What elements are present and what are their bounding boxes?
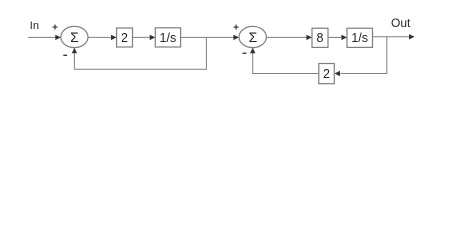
wire feedback loop 2 left segment <box>253 53 319 74</box>
arrowhead at output <box>409 34 415 39</box>
arrowhead into G2 <box>306 35 312 40</box>
arrowhead into U1 <box>55 35 61 40</box>
wire G1 to integrator I1 <box>133 36 151 38</box>
summing junction U1 <box>61 26 88 47</box>
svg-text:Σ: Σ <box>70 29 79 45</box>
svg-text:Σ: Σ <box>249 29 258 45</box>
integrator block I1 value 1/s <box>155 28 180 47</box>
minus sign at U1 feedback input <box>63 55 67 56</box>
wire U2 to gain block G2 <box>267 36 308 38</box>
arrowhead into I1 <box>150 35 156 40</box>
svg-text:Out: Out <box>391 16 411 30</box>
wire G2 to integrator I2 <box>328 36 342 38</box>
svg-text:1/s: 1/s <box>160 31 177 45</box>
svg-text:2: 2 <box>121 31 128 45</box>
plus sign at U1 input <box>53 25 58 30</box>
arrowhead up into U1 bottom <box>72 48 77 54</box>
arrowhead up into U2 bottom <box>250 48 255 54</box>
wire U1 to gain block G1 <box>88 36 112 38</box>
arrowhead left into feedback gain G3 <box>334 71 340 76</box>
gain block G1 value 2 <box>117 28 133 47</box>
wire I1 to summing junction U2 <box>181 36 235 38</box>
plus sign at U2 input <box>234 25 239 30</box>
gain block G2 value 8 <box>312 28 328 47</box>
svg-text:8: 8 <box>317 31 324 45</box>
svg-text:In: In <box>30 20 39 32</box>
wire I2 to output <box>373 36 411 38</box>
wire input to summing junction U1 <box>28 36 56 38</box>
arrowhead into G1 <box>111 35 117 40</box>
integrator block I2 value 1/s <box>347 28 373 47</box>
summing junction U2 <box>239 26 266 47</box>
wire feedback loop 2 right segment <box>341 37 387 74</box>
svg-text:2: 2 <box>323 67 330 81</box>
wire feedback loop 1 <box>74 37 206 69</box>
arrowhead into I2 <box>341 35 347 40</box>
minus sign at U2 feedback input <box>243 53 247 54</box>
feedback gain block G3 value 2 <box>319 64 335 84</box>
arrowhead into U2 <box>233 35 239 40</box>
svg-text:1/s: 1/s <box>351 31 368 45</box>
